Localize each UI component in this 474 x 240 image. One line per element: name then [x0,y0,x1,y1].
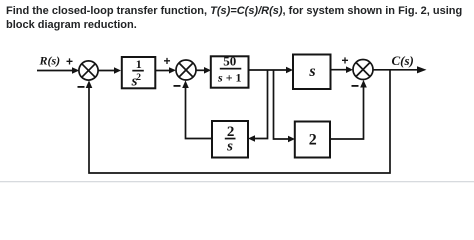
text 50/(s+1) in block [217,54,242,85]
wire 50/(s+1) to s [249,67,294,74]
svg-text:R(s): R(s) [39,54,61,68]
wire J1 to 1/s2 [98,67,121,74]
summing junction J1 [79,61,98,80]
svg-text:s + 1: s + 1 [217,70,242,84]
sign + at J1 [66,55,73,69]
problem text [6,4,474,32]
wire J3 to C(s) output [373,66,427,73]
sign - at J2 [174,85,181,87]
wire 2 output up to J3 [330,80,367,139]
wire takeoff to 2/s input [248,70,268,142]
sign - at J3 [352,85,359,87]
wire J2 to 50/(s+1) [196,67,211,74]
block s [293,55,331,90]
text 1/s2 in block [131,57,144,89]
svg-text:s: s [308,63,315,80]
wire outer feedback from output down and back to J1 [86,70,390,173]
svg-text:+: + [342,54,349,68]
svg-text:C(s): C(s) [392,53,414,68]
sign + at J3 [342,54,349,68]
wire takeoff to block 2 input [274,70,296,142]
block 2/s [212,121,248,158]
summing junction J2 [176,60,196,80]
wire 2/s output up to J2 [182,80,212,138]
block 50/(s+1) [211,56,249,87]
wire s to J3 [331,66,354,73]
svg-text:+: + [164,54,171,68]
wire 1/s2 to J2 [156,67,177,73]
svg-text:1: 1 [136,57,142,71]
sign + at J2 [164,54,171,68]
text 2/s in block [225,124,236,154]
block 1/s2 [122,57,156,88]
wire R(s) input [37,67,79,74]
text s in block [308,63,315,80]
sign - at J1 [78,86,85,88]
label C(s) [392,53,414,68]
block 2 [295,122,330,158]
text 2 in block [309,131,317,148]
bottom separator line [0,181,474,182]
svg-text:2: 2 [136,73,141,83]
svg-text:2: 2 [309,131,317,148]
svg-text:50: 50 [223,54,236,69]
svg-text:s: s [226,139,233,155]
summing junction J3 [353,60,373,80]
label R(s) [39,54,61,68]
svg-text:+: + [66,55,73,69]
